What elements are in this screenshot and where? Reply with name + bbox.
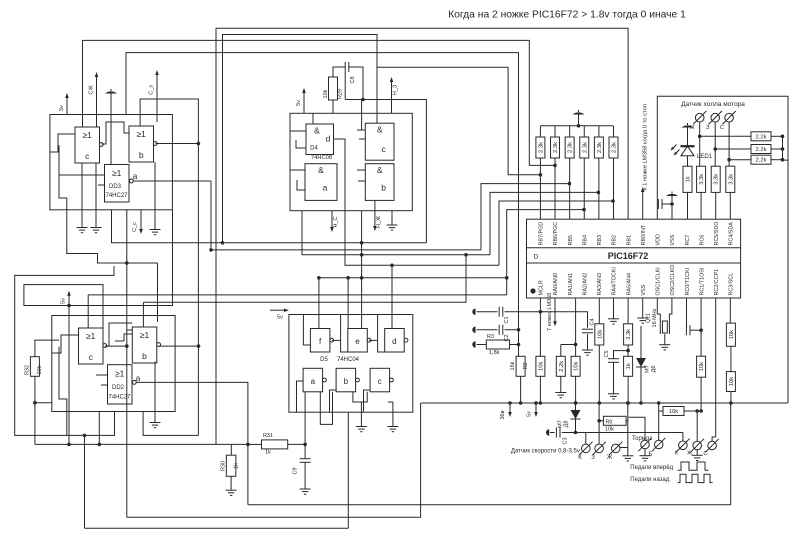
svg-text:10k: 10k	[729, 377, 735, 386]
junction RB3 tap	[597, 191, 601, 195]
resistor pull-up 2.3k on RB6/PGC	[554, 126, 556, 137]
capacitor C1	[472, 309, 475, 315]
svg-text:С3: С3	[563, 437, 569, 444]
power bar at pull-up rail	[578, 115, 580, 126]
svg-text:d: d	[392, 337, 396, 346]
svg-text:Ж: Ж	[607, 455, 613, 461]
wire 10k horizontal lead	[659, 410, 663, 412]
resistor R3 1.8k	[472, 341, 475, 347]
ground at C4	[587, 334, 589, 350]
wire brake 1 feed	[629, 417, 646, 440]
svg-text:2.2k: 2.2k	[756, 158, 767, 164]
wire into DD3.c input	[82, 115, 84, 128]
svg-text:2.2k: 2.2k	[756, 147, 767, 153]
junction	[698, 135, 702, 139]
resistor pull-up 2.3k on RB3	[598, 126, 600, 137]
svg-text:≥1: ≥1	[136, 129, 146, 139]
resistor R30 1k	[230, 444, 232, 455]
pin 1 mark MCLR dot	[530, 288, 535, 293]
power 5v arrow at D5	[270, 308, 289, 312]
signal arrow N_zh out of D4	[373, 211, 377, 231]
svg-text:10k: 10k	[538, 362, 544, 371]
svg-text:D5: D5	[320, 357, 328, 363]
junction	[699, 328, 703, 332]
junction	[626, 401, 630, 405]
svg-text:2.3k: 2.3k	[597, 142, 603, 153]
svg-text:2.3k: 2.3k	[568, 142, 574, 153]
svg-text:1k: 1k	[265, 450, 271, 456]
wire bottom net G1	[248, 504, 731, 506]
svg-text:10k: 10k	[597, 330, 603, 339]
wire loop bottom H_a	[15, 412, 115, 436]
wire C_z stub into box	[156, 115, 158, 123]
svg-text:RA3/AN3: RA3/AN3	[597, 273, 603, 295]
wire 2.2k common	[783, 136, 789, 160]
svg-text:≥1: ≥1	[112, 168, 122, 178]
resistor R31 1k	[262, 440, 288, 449]
wire DD2.a jog	[96, 374, 108, 376]
junction R8 left	[597, 419, 601, 423]
junction	[670, 202, 674, 206]
junction RA5 node	[627, 345, 629, 356]
resistor 3.3k at RC5	[711, 166, 720, 192]
svg-text:c: c	[85, 151, 90, 161]
svg-text:2.3k: 2.3k	[553, 142, 559, 153]
wire bottom net G3	[85, 527, 349, 529]
wire M1 feed column through DD2	[126, 210, 128, 517]
resistor R2 16k	[518, 330, 520, 357]
wire R8 right lead	[626, 420, 628, 422]
ground at R30	[230, 476, 232, 490]
wire net to RB5 riser source	[211, 249, 481, 251]
connector Zh hall	[693, 111, 706, 124]
svg-text:f: f	[319, 337, 322, 346]
wire into D5.d	[391, 265, 393, 328]
resistor 3.3k at RC6	[697, 166, 706, 192]
wire D5 gate wraps top row	[303, 315, 310, 346]
wire C8 left plate loop	[344, 72, 346, 100]
svg-text:a: a	[323, 183, 328, 193]
and gate D4.a	[305, 164, 337, 201]
svg-text:≥1: ≥1	[82, 130, 92, 140]
ground at 2.2k	[560, 376, 562, 392]
wire Zh column	[699, 122, 701, 166]
resistor pull-up 2.3k on RB5	[569, 126, 571, 137]
ground at VSS bottom	[642, 298, 644, 318]
junction	[197, 344, 201, 348]
wire loop bottom H_b	[35, 443, 247, 445]
svg-text:c: c	[378, 377, 382, 386]
svg-text:5v: 5v	[277, 315, 283, 321]
wire RB4 tap	[507, 210, 584, 295]
nor gate DD3.a	[105, 165, 130, 203]
wire bus B4 (RB7 net)	[223, 35, 541, 243]
wire MCLR to C4	[540, 312, 587, 328]
wire U-loop b-c in D5	[353, 392, 367, 402]
resistor R8 10k	[603, 416, 626, 425]
wire RB3 tap	[490, 192, 598, 254]
svg-text:Педали назад: Педали назад	[630, 477, 670, 483]
wire R32 node to DD2	[35, 402, 52, 404]
wire U-loop a-b under D5	[320, 392, 332, 425]
svg-text:Н_С: Н_С	[333, 216, 339, 227]
power 5v arrow at D4	[302, 88, 306, 113]
wire pull-up rail	[540, 125, 613, 127]
junction	[781, 158, 785, 162]
diode D6	[640, 326, 642, 358]
junction	[598, 401, 602, 405]
nor gate DD2.a	[108, 365, 133, 404]
svg-text:5v: 5v	[61, 298, 67, 304]
resistor 3.3k at RC4	[726, 166, 735, 192]
junction	[125, 344, 129, 348]
wire bottom net G2	[127, 403, 421, 517]
resistor 2.2k pull-up 1	[700, 135, 751, 137]
signal arrow 5v down	[534, 403, 538, 417]
junction RB2 tap	[611, 199, 615, 203]
svg-text:74HC27: 74HC27	[105, 193, 128, 199]
wire C column	[728, 122, 730, 166]
wire DD3.a output	[133, 180, 211, 182]
svg-text:2.2k: 2.2k	[559, 361, 565, 372]
wire RA1 riser	[575, 298, 577, 345]
frame D4 74HC08 group box	[290, 113, 412, 210]
svg-text:3.3k: 3.3k	[728, 174, 734, 185]
svg-text:VDD: VDD	[656, 234, 662, 245]
nor gate DD2.c	[79, 328, 104, 364]
svg-text:D4: D4	[310, 146, 318, 152]
wire bus B1 (RB1 net)	[216, 28, 628, 444]
svg-text:a: a	[311, 377, 316, 386]
signal arrow C_z at DD3 top	[155, 70, 159, 115]
svg-text:b: b	[344, 377, 349, 386]
wire DD3.c jog	[50, 134, 75, 152]
signal arrow 36v	[508, 403, 512, 417]
wire DD2.b pin stem	[154, 362, 156, 412]
svg-text:2.3k: 2.3k	[538, 142, 544, 153]
wire DD2.c output	[105, 345, 127, 347]
svg-text:Д6: Д6	[651, 366, 657, 373]
diode D8	[574, 401, 578, 405]
wire DD2.a output to G1	[136, 382, 248, 504]
svg-text:Педали вперёд: Педали вперёд	[630, 465, 673, 471]
resistor pull-up 2.3k on RB2	[613, 126, 615, 137]
wire into DD2.c top	[87, 295, 89, 328]
junction	[657, 401, 661, 405]
svg-text:С9: С9	[293, 467, 299, 474]
svg-text:10k: 10k	[37, 365, 43, 374]
svg-text:2.3k: 2.3k	[582, 142, 588, 153]
wire loop rect mid around DD2	[24, 210, 173, 328]
svg-text:5v: 5v	[59, 105, 65, 111]
signal arrow N_z at D4 top	[390, 77, 394, 113]
svg-text:С5: С5	[604, 350, 610, 357]
junction a-out column	[246, 443, 250, 447]
inverter D5.f	[310, 329, 330, 353]
wire into D5.e 2	[347, 278, 349, 329]
junction	[781, 147, 785, 151]
svg-text:R3: R3	[487, 334, 494, 340]
wire into D4.c input from bus B4	[376, 67, 378, 123]
resistor 10k at RA3	[598, 298, 600, 324]
svg-text:7 ножка LM358: 7 ножка LM358	[547, 293, 553, 331]
svg-text:RC5/SDO: RC5/SDO	[714, 222, 720, 246]
junction C2 node	[517, 328, 521, 332]
nor gate DD3.b	[129, 126, 154, 162]
junction	[505, 276, 509, 280]
wire mid net M3	[345, 264, 499, 266]
svg-text:R2: R2	[523, 362, 529, 369]
ground at brake	[644, 449, 646, 456]
svg-text:RB4: RB4	[582, 235, 588, 246]
svg-text:RC4/SDA: RC4/SDA	[729, 222, 735, 246]
connector C2b	[705, 439, 718, 452]
svg-text:&: &	[377, 125, 383, 135]
wire 5v column down	[68, 306, 70, 445]
wire RB7/PGD column	[539, 158, 541, 219]
connector K speed	[579, 442, 592, 455]
ground at D5.c	[392, 402, 394, 427]
wire bus B3 (C2 net)	[126, 53, 519, 330]
inverter D5.d	[385, 329, 405, 353]
junction b-out joins rail	[197, 142, 201, 146]
resistor 10k at MCLR	[536, 356, 545, 376]
svg-text:RB3: RB3	[597, 235, 603, 246]
ground at D4	[391, 211, 393, 225]
wire DD2.c jog	[52, 335, 79, 353]
crystal Qz1 16MHz	[657, 298, 660, 320]
svg-text:b: b	[142, 351, 147, 361]
junction	[727, 158, 731, 162]
resistor R29 10k	[332, 100, 334, 113]
svg-text:Н_З: Н_З	[393, 84, 399, 95]
svg-text:36в: 36в	[500, 410, 506, 419]
wire DD2 staircase	[59, 347, 67, 436]
wire RB4 column	[583, 158, 585, 219]
junction 5v node	[67, 304, 71, 308]
svg-text:Датчик скорости 0,8-3,5v: Датчик скорости 0,8-3,5v	[511, 449, 580, 455]
junction	[209, 248, 213, 252]
waveform forward	[678, 462, 709, 470]
svg-text:К: К	[675, 451, 679, 457]
ground at Zh2	[696, 450, 698, 456]
svg-text:М7: М7	[558, 420, 564, 428]
junction RB4 tap	[582, 208, 586, 212]
frame D5 74HC04 group box	[289, 315, 413, 413]
wire DD2.b output	[159, 345, 198, 347]
svg-text:VSS: VSS	[641, 284, 647, 295]
wire DD2 gate c bottom column	[84, 435, 86, 528]
svg-text:2.2k: 2.2k	[756, 134, 767, 140]
svg-text:RB6/PGC: RB6/PGC	[553, 222, 559, 246]
resistor 10k horizontal	[663, 407, 684, 416]
and gate D4.c	[365, 123, 394, 160]
power bar symbol at DD3 top	[110, 94, 112, 115]
svg-text:RC0/T1CKI: RC0/T1CKI	[685, 268, 691, 296]
svg-text:Д8: Д8	[564, 421, 570, 428]
and gate D4.b	[365, 164, 394, 201]
power 5v arrow at DD2	[67, 291, 71, 306]
svg-text:&: &	[314, 126, 320, 136]
svg-text:RB7/PGD: RB7/PGD	[539, 222, 545, 246]
wire into D5.e	[361, 243, 363, 329]
wire DD3.b output to left vertical	[156, 143, 199, 145]
svg-text:С: С	[703, 451, 707, 457]
junction C9 node	[303, 443, 307, 447]
connector C hall	[722, 111, 735, 124]
svg-text:R29: R29	[338, 89, 344, 99]
ground at C9	[304, 462, 306, 489]
wire into DD2.b top	[142, 302, 144, 327]
svg-text:c: c	[382, 144, 387, 154]
ground at C5	[613, 362, 615, 394]
wire VDD supply frame (hall box)	[657, 96, 788, 403]
svg-text:a: a	[133, 171, 138, 181]
wire D4 input jogs	[290, 130, 306, 132]
ground at D5.b	[360, 402, 362, 427]
svg-text:RB0/INT: RB0/INT	[641, 224, 647, 245]
wire C8 node into D4.c	[362, 113, 366, 130]
svg-text:С_с: С_с	[132, 222, 138, 232]
svg-text:З: З	[591, 455, 595, 461]
wire C3 line	[562, 432, 683, 434]
svg-text:RC6: RC6	[699, 235, 705, 246]
connector brake 2	[652, 438, 665, 451]
wire D5.b output riser to G3	[347, 412, 349, 528]
wire mid net M2	[302, 211, 490, 255]
junction	[639, 401, 643, 405]
junction RB5 tap	[568, 182, 572, 186]
svg-text:к 1 ножке LM358 когда 0 то ст: к 1 ножке LM358 когда 0 то стоп	[643, 104, 649, 190]
wire RB2 column	[613, 158, 615, 219]
power bar at LED	[682, 123, 694, 128]
resistor 2.2k at RA1	[561, 344, 577, 346]
svg-text:2.3k: 2.3k	[612, 142, 618, 153]
junction staircase	[125, 261, 129, 265]
svg-text:RA1/AN1: RA1/AN1	[568, 273, 574, 295]
junction RB7 tap	[539, 173, 543, 177]
svg-text:10k: 10k	[574, 362, 580, 371]
ground at DD3 pin 3	[154, 210, 156, 230]
svg-text:R8: R8	[606, 419, 613, 425]
capacitor C2	[472, 327, 475, 333]
svg-text:RA5/AN4: RA5/AN4	[626, 273, 632, 295]
resistor 2.2k pull-up 2	[715, 148, 751, 150]
wire main bottom bus 403	[421, 402, 788, 404]
wire R31 to C9 node	[288, 443, 305, 445]
capacitor C3	[546, 429, 549, 435]
junction	[221, 241, 225, 245]
svg-text:1k: 1k	[234, 463, 240, 469]
wire D5 bottom jog	[356, 401, 361, 403]
wire DD2.b feed	[143, 255, 466, 302]
junction	[390, 264, 394, 268]
svg-text:d: d	[326, 134, 331, 144]
junction R3 node	[517, 343, 521, 347]
connector K2	[676, 439, 689, 452]
ground at DD3 pin	[81, 210, 83, 228]
wire VSS column	[671, 204, 673, 219]
wire pedal box right edge	[730, 403, 732, 505]
inverter D5.e	[348, 329, 368, 353]
junction	[713, 147, 717, 151]
ic PIC16F72 body	[527, 219, 741, 298]
signal arrow RA0 to LM358 pin7	[553, 298, 557, 326]
svg-text:10k: 10k	[669, 409, 678, 415]
wire gate-b top rail	[140, 99, 198, 435]
svg-text:16k: 16k	[510, 361, 516, 370]
svg-text:Qz1: Qz1	[646, 313, 652, 323]
svg-text:74HC27: 74HC27	[108, 395, 131, 401]
wire loop rect outer around DD2	[15, 266, 114, 436]
wire vertical net L3	[210, 181, 212, 250]
signal arrow C_Zh at DD3	[95, 72, 99, 115]
svg-text:1k: 1k	[626, 363, 632, 369]
wire RB2 tap	[499, 201, 613, 265]
svg-text:R31: R31	[263, 433, 273, 439]
svg-text:b: b	[139, 150, 144, 160]
capacitor at RC0	[686, 298, 688, 325]
connector Zh2	[691, 439, 704, 452]
svg-text:5v: 5v	[527, 411, 533, 417]
capacitor VDD decoupling	[657, 203, 658, 205]
wire DD3 c-to-b cascade	[102, 122, 129, 144]
wire RB5 column	[569, 158, 571, 219]
svg-text:RB1: RB1	[626, 235, 632, 246]
wire C8 to node	[349, 67, 363, 100]
svg-text:b: b	[381, 183, 386, 193]
svg-text:R30: R30	[221, 461, 227, 471]
signal arrow C_s out of DD3	[139, 210, 143, 234]
junction	[626, 401, 630, 405]
junction	[360, 253, 364, 257]
resistor 3.3k at RA5	[627, 298, 629, 324]
wire RB3 column	[598, 158, 600, 219]
svg-text:RC3/SCL: RC3/SCL	[729, 273, 735, 296]
svg-text:1k: 1k	[686, 176, 692, 182]
svg-text:OSC1/CLKI: OSC1/CLKI	[656, 267, 662, 295]
svg-text:RC1/T1OSI: RC1/T1OSI	[699, 268, 705, 296]
wire DD3.a jog	[59, 174, 105, 176]
connector Z hall	[709, 111, 722, 124]
wire mid net M1	[112, 210, 427, 243]
svg-text:DD3: DD3	[109, 184, 122, 190]
frame DD3 74HC27 group box	[50, 115, 172, 210]
svg-text:RA0/AN0: RA0/AN0	[553, 273, 559, 295]
junction	[781, 135, 785, 139]
frame DD2 74HC27 group box	[52, 316, 175, 412]
resistor 1k at RC7	[683, 166, 692, 192]
svg-text:3.3k: 3.3k	[699, 174, 705, 185]
junction R32 bottom	[33, 401, 37, 405]
wire D5 gate wraps bottom row	[297, 381, 304, 412]
wire D4.e riser through box	[361, 211, 363, 243]
svg-text:PIC16F72: PIC16F72	[608, 251, 649, 261]
svg-text:С_з: С_з	[149, 85, 155, 95]
svg-text:R32: R32	[25, 365, 31, 375]
svg-text:≥1: ≥1	[86, 331, 96, 341]
wire RC7 column	[687, 192, 689, 219]
ground at RA4	[613, 298, 615, 319]
nor gate DD3.c	[75, 127, 100, 163]
svg-text:10k: 10k	[699, 362, 705, 371]
wire bus B2 (RB6 net)	[83, 40, 556, 165]
power 5v arrow at DD3	[65, 93, 69, 115]
and gate D4.d	[306, 124, 334, 155]
wire DD3 input staircase	[59, 146, 158, 264]
svg-text:Б: Б	[649, 452, 653, 458]
wire jog into DD2.b	[127, 329, 133, 331]
